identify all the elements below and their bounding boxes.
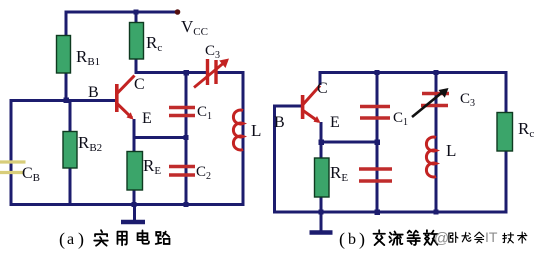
- svg-text:(: (: [59, 229, 65, 250]
- node: junction dots: [64, 10, 439, 216]
- capacitor C2 (left) plates: [169, 167, 195, 176]
- svg-text:B: B: [274, 114, 285, 131]
- wire: right branch through L: [242, 71, 245, 206]
- resistor RE (right): [315, 158, 330, 197]
- svg-text:B: B: [88, 84, 99, 101]
- variable capacitor C3 (right): [421, 94, 449, 106]
- wire: right Rc bottom: [505, 150, 508, 213]
- svg-text:C: C: [317, 80, 328, 97]
- transistor Q (left): [117, 76, 135, 119]
- svg-text:(: (: [339, 229, 345, 250]
- wire: right collector vertical: [319, 71, 322, 85]
- variable capacitor C3 (left): [194, 59, 223, 88]
- wire: RB2 branch top: [69, 100, 72, 132]
- wire: emitter tap to C1/C2 node: [134, 136, 186, 139]
- labels: serif component designators: [22, 17, 534, 184]
- inductor L (right): [426, 137, 436, 177]
- watermark: @卧龙会IT技术: [434, 229, 498, 247]
- wire: C3 right to corner: [217, 71, 243, 74]
- resistor RB2: [63, 132, 77, 169]
- svg-text:E: E: [142, 110, 152, 127]
- wire: Rc branch from top rail: [135, 12, 138, 23]
- wire: right emitter vertical: [320, 122, 323, 143]
- wire: right RE branch: [320, 142, 323, 159]
- svg-text:IT: IT: [485, 229, 498, 245]
- wire: right circuit top rail: [320, 71, 506, 74]
- capacitor C1 (left) plates: [169, 108, 195, 116]
- wire: right C1-C2 branch: [376, 71, 379, 213]
- svg-text:L: L: [251, 121, 261, 140]
- svg-text:a: a: [67, 231, 74, 248]
- svg-text:): ): [78, 229, 84, 250]
- wire: RB1 to base node: [65, 72, 68, 100]
- svg-text:L: L: [446, 141, 456, 160]
- resistor RB1: [57, 36, 71, 74]
- transistor Q (right): [303, 86, 320, 122]
- caption text: 实用电路: [94, 230, 169, 245]
- wire: RB1 branch from top rail: [65, 11, 68, 37]
- wire: ground stub left: [133, 205, 136, 222]
- wire: right circuit left vertical: [273, 105, 276, 214]
- capacitor C2 (right) plates: [359, 169, 392, 181]
- wire: left circuit top supply rail: [66, 11, 177, 14]
- wire: C1-C2 branch: [185, 71, 188, 206]
- caption text: 交流等效: [373, 230, 437, 245]
- caption (b): [339, 229, 365, 250]
- wire: RE bottom to rail: [133, 189, 136, 206]
- ground (left): [121, 220, 145, 225]
- wire: RB2 bottom to rail: [69, 167, 72, 206]
- wire: right circuit base horizontal: [275, 105, 303, 108]
- Vcc terminal dot: [175, 9, 181, 15]
- svg-text:b: b: [348, 231, 356, 248]
- svg-text:): ): [359, 229, 365, 250]
- inductor L (left): [233, 110, 243, 150]
- wire: left vertical through CB: [10, 99, 13, 206]
- wire: collector horizontal to C3: [135, 71, 207, 74]
- caption (a): [59, 229, 84, 250]
- resistor Rc (left): [130, 23, 144, 60]
- svg-text:@: @: [434, 230, 449, 247]
- wire: base horizontal: [11, 99, 116, 102]
- wire: right circuit ground rail: [273, 211, 508, 214]
- svg-text:C: C: [134, 76, 145, 93]
- capacitor C1 (right) plates: [360, 107, 390, 119]
- wire: right Rc branch top: [505, 71, 508, 113]
- wire: left circuit ground rail: [10, 203, 245, 206]
- wire: right RE bottom: [320, 196, 323, 213]
- capacitor CB plates: [0, 162, 26, 173]
- wire: Rc to collector node: [135, 58, 138, 73]
- wire: emitter vertical: [133, 119, 136, 152]
- wire: right emitter tap: [321, 141, 377, 144]
- wire: right C3-L branch: [435, 71, 438, 213]
- ground (right): [310, 230, 333, 235]
- svg-text:E: E: [330, 114, 340, 131]
- resistor RE (left): [127, 152, 143, 191]
- resistor Rc (right): [497, 113, 513, 152]
- wire: ground stub right: [320, 212, 323, 231]
